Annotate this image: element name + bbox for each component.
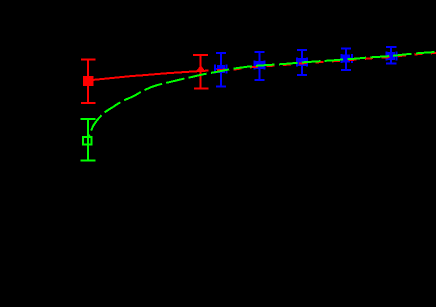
blue data point 4 with xy error bars [341,49,352,70]
red triangle data point with error bar [193,55,208,89]
blue data point 2 with xy error bars [254,52,264,80]
blue data point 3 with xy error bars [297,50,307,75]
red filled-square data point with error bar [81,60,95,103]
green open-square data point with error bar [80,119,95,161]
red fit curve dashed segment [203,53,436,71]
blue data point 1 with xy error bars [215,53,226,87]
red fit curve solid segment [88,71,203,81]
green dashed fit curve [88,52,436,138]
blue data point 5 with xy error bars [386,47,397,63]
